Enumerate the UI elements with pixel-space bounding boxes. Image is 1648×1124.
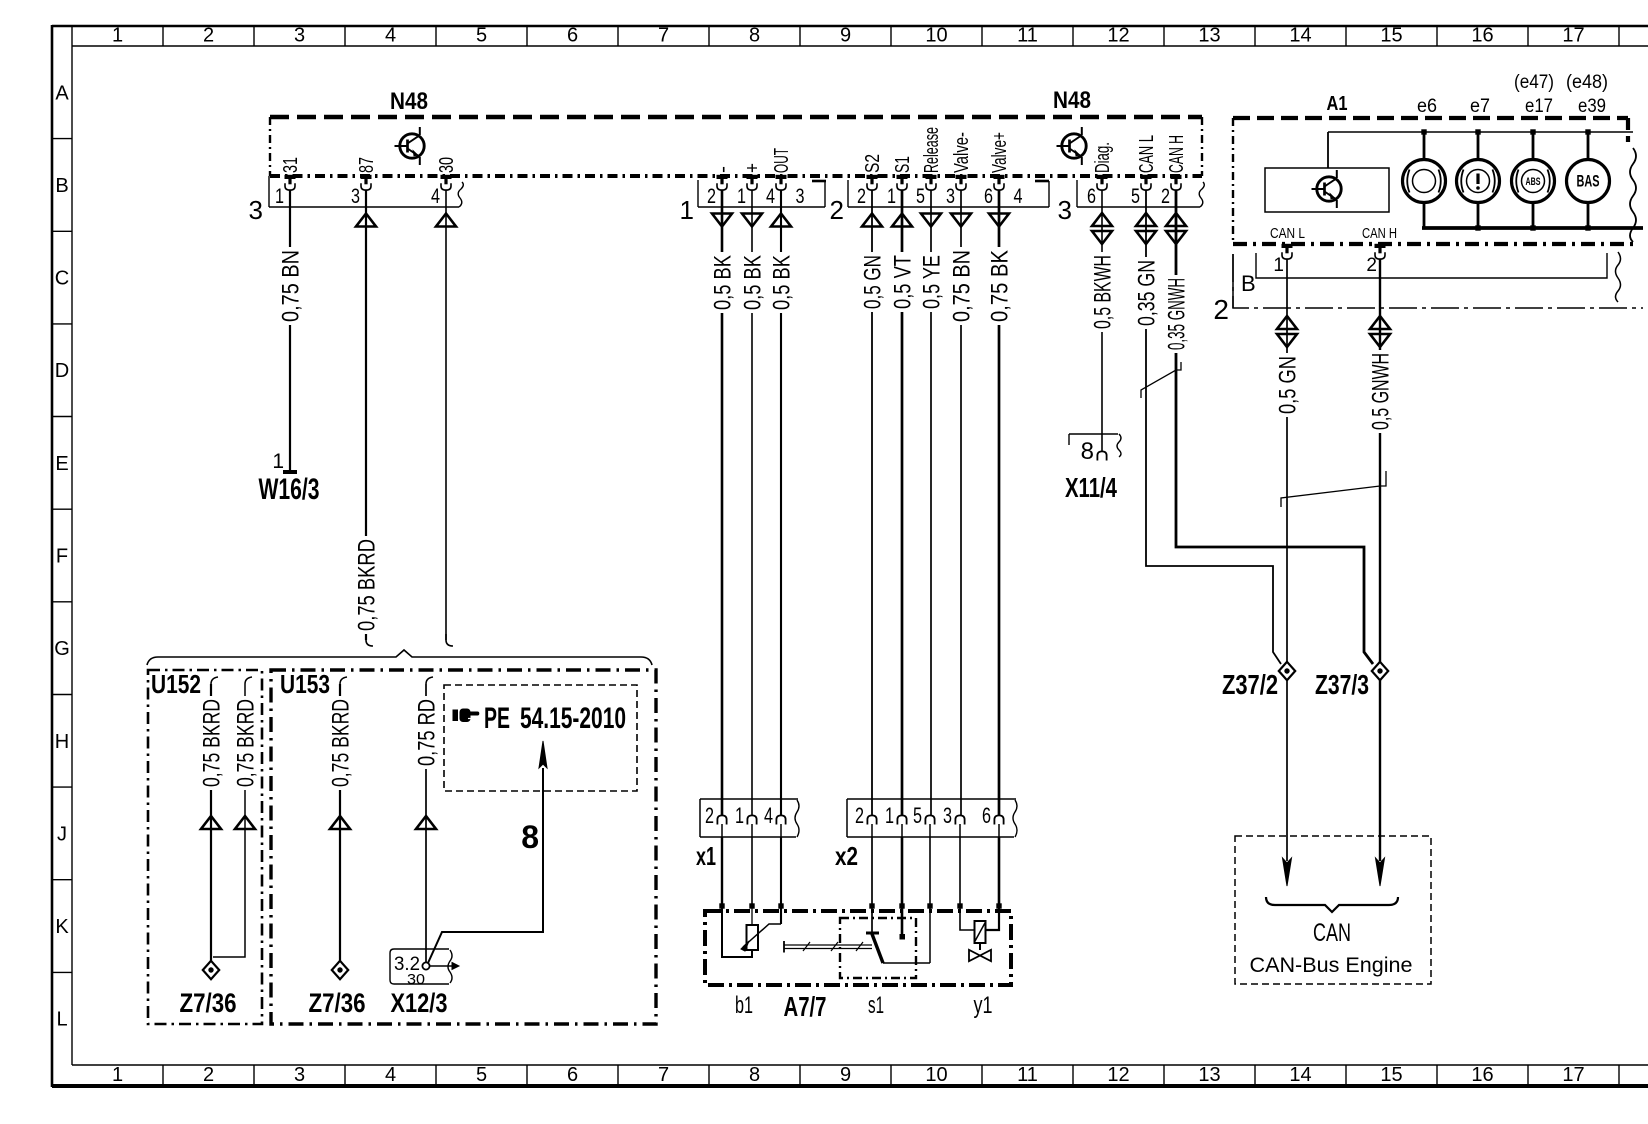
wire x2.1 to s1 — [901, 837, 904, 906]
svg-text:0,75 BKRD: 0,75 BKRD — [233, 699, 260, 787]
svg-text:ABS: ABS — [1526, 176, 1541, 188]
svg-text:2: 2 — [830, 195, 844, 225]
svg-text:0,5 BK: 0,5 BK — [710, 255, 737, 310]
connector strip bracket 3 (terminals 31 87 30) — [249, 176, 464, 225]
svg-text:S2: S2 — [862, 154, 884, 173]
node bus-e7 — [1475, 129, 1480, 134]
wire 8 from X12/3 to PE reference — [428, 741, 547, 963]
x2 pin 6 — [982, 803, 1004, 837]
label e7 — [1470, 96, 1490, 117]
wire 0,75 BKRD U152 right to splice Z7/36 — [213, 677, 260, 957]
connector triangle (male) on wire x1.4 — [771, 214, 791, 227]
svg-text:CAN H: CAN H — [1362, 225, 1397, 242]
svg-text:0,5 VT: 0,5 VT — [890, 255, 917, 309]
wire x2.3 to y1 — [959, 837, 961, 906]
svg-text:OUT: OUT — [771, 148, 793, 173]
svg-text:s1: s1 — [868, 992, 884, 1019]
svg-text:9: 9 — [840, 25, 851, 47]
svg-text:x2: x2 — [835, 841, 858, 871]
instrument cluster A1 dashed box — [1233, 118, 1636, 244]
wire 0,5 BK pin1 to x1.1 — [740, 190, 767, 816]
svg-text:4: 4 — [766, 185, 775, 208]
wire transceiver to lamp bus — [1328, 132, 1633, 168]
wire 0,5 BKWH pin6 to X11/4 — [1090, 190, 1117, 452]
wire x2.6 to y1 — [998, 837, 1001, 906]
svg-text:12: 12 — [1107, 1064, 1129, 1086]
x2 pin 2 — [855, 803, 877, 837]
svg-text:0,5 GN: 0,5 GN — [1275, 356, 1302, 414]
label A7/7 — [784, 991, 827, 1022]
svg-text:F: F — [56, 546, 68, 568]
svg-text:B: B — [55, 175, 68, 197]
CAN underbrace and labels — [1250, 897, 1413, 977]
twisted pair marker N48 CAN wires — [1141, 362, 1181, 398]
pin 4 (OUT) of N48 connector 1 — [766, 146, 793, 208]
CAN transceiver box in A1 — [1265, 168, 1389, 212]
svg-text:Z7/36: Z7/36 — [180, 988, 237, 1018]
connector triangle on wire x2.3 — [951, 214, 971, 227]
double connector triangles on CAN L wire — [1136, 213, 1156, 244]
pin 3 terminal 87 of N48 — [351, 155, 378, 208]
harness connector U152 dash-dot box — [148, 669, 262, 1024]
label N48 (left) — [390, 88, 428, 115]
svg-text:5: 5 — [476, 1064, 487, 1086]
indicator lamp e6 (brake wear) — [1403, 132, 1446, 228]
wire x1.2 to b1 — [721, 837, 723, 906]
svg-text:3: 3 — [943, 803, 952, 828]
twisted pair marker A1 CAN wires — [1281, 471, 1386, 507]
svg-text:e7: e7 — [1470, 96, 1490, 117]
transistor symbol in N48 (right) — [1057, 127, 1087, 165]
svg-text:15: 15 — [1380, 25, 1402, 47]
ground W16/3 — [259, 450, 320, 506]
svg-text:5: 5 — [476, 25, 487, 47]
label N48 (right) — [1053, 87, 1091, 114]
wire 0,75 BN pin3 to x2.3 — [949, 190, 976, 816]
splice Z37/3 — [1315, 662, 1388, 700]
connector triangle on wire pin4 — [436, 214, 456, 227]
svg-text:CAN L: CAN L — [1136, 135, 1158, 173]
svg-text:2: 2 — [705, 803, 714, 828]
svg-text:1: 1 — [112, 1064, 123, 1086]
connector x2 strip — [835, 799, 1017, 871]
wire x1.4 to b1 — [780, 837, 782, 906]
double connector triangles on CAN H wire — [1166, 213, 1186, 244]
svg-text:5: 5 — [1131, 185, 1140, 208]
svg-text:L: L — [56, 1009, 67, 1031]
svg-text:1: 1 — [737, 185, 746, 208]
svg-text:9: 9 — [840, 1064, 851, 1086]
wire 0,5 BK pin2 to x1.2 — [710, 190, 737, 816]
node x1.2 on A7/7 — [719, 903, 724, 908]
svg-text:X11/4: X11/4 — [1065, 472, 1117, 503]
svg-text:Z37/3: Z37/3 — [1315, 669, 1369, 700]
svg-text:y1: y1 — [974, 992, 993, 1019]
svg-text:30: 30 — [407, 971, 425, 988]
CAN-Bus Engine dashed box — [1235, 836, 1431, 984]
wire 0,5 YE pin5 to x2.5 — [919, 190, 946, 816]
svg-text:-: - — [712, 166, 734, 173]
svg-text:3: 3 — [294, 25, 305, 47]
svg-text:10: 10 — [925, 25, 947, 47]
label e39 — [1578, 96, 1606, 117]
label A1 — [1327, 93, 1348, 115]
svg-text:5: 5 — [913, 803, 922, 828]
connector triangle U153 wire 2 — [416, 816, 436, 829]
svg-text:1: 1 — [275, 185, 284, 208]
svg-text:1: 1 — [112, 25, 123, 47]
svg-text:8: 8 — [749, 25, 760, 47]
arrow CAN H into CAN bus — [1376, 858, 1385, 886]
splice Z37/2 — [1222, 662, 1295, 700]
svg-text:D: D — [55, 360, 69, 382]
node x2.5 on A7/7 — [927, 903, 932, 908]
svg-text:Valve+: Valve+ — [989, 132, 1011, 173]
svg-text:e6: e6 — [1417, 96, 1437, 117]
double connector triangles on Diag wire — [1092, 213, 1112, 244]
svg-text:X12/3: X12/3 — [391, 988, 448, 1018]
svg-text:0,5 GNWH: 0,5 GNWH — [1368, 353, 1395, 430]
hydraulic unit A7/7 dash-dot box — [705, 911, 1011, 985]
svg-text:2: 2 — [203, 25, 214, 47]
svg-text:17: 17 — [1562, 1064, 1584, 1086]
node x1.4 on A7/7 — [778, 903, 783, 908]
node x2.3 on A7/7 — [957, 903, 962, 908]
svg-text:U152: U152 — [151, 669, 201, 699]
svg-text:6: 6 — [1087, 185, 1096, 208]
svg-text:2: 2 — [1161, 185, 1170, 208]
x1 pin 2 — [705, 803, 727, 837]
svg-text:0,5 BKWH: 0,5 BKWH — [1090, 255, 1117, 329]
svg-text:1: 1 — [1273, 255, 1284, 276]
svg-text:6: 6 — [984, 185, 993, 208]
svg-text:15: 15 — [1380, 1064, 1402, 1086]
indicator lamp e7 (brake warning) — [1457, 132, 1500, 228]
svg-text:1: 1 — [887, 185, 896, 208]
wire 0,5 GN A1 pin1 to splice Z37/2 and CAN-Bus — [1275, 259, 1302, 861]
wire x2.5 to s1 — [929, 837, 931, 906]
lamp return bus (thick) — [1422, 225, 1643, 230]
pin 1 (S1) of N48 connector 2 — [887, 154, 914, 208]
connector triangle U153 wire 1 — [330, 816, 350, 829]
splice Z7/36 in U152 — [180, 961, 237, 1018]
wire 0,75 RD U153 to terminal 30 X12/3 — [414, 677, 441, 962]
wire 0,75 BKRD U152 left to splice Z7/36 — [199, 677, 226, 961]
svg-text:0,75 BKRD: 0,75 BKRD — [328, 699, 355, 787]
svg-text:Release: Release — [921, 127, 943, 173]
connector triangle on wire x2.1 — [892, 214, 912, 227]
wire 0,35 GN CAN L from N48 to splice Z37/2 — [1134, 190, 1281, 664]
svg-text:CAN H: CAN H — [1166, 135, 1188, 173]
svg-text:U153: U153 — [280, 669, 330, 699]
svg-text:3: 3 — [294, 1064, 305, 1086]
svg-text:0,5 GN: 0,5 GN — [860, 255, 887, 309]
svg-text:16: 16 — [1471, 1064, 1493, 1086]
x2 pin 3 — [943, 803, 965, 837]
control unit N48 dashed box — [270, 117, 1202, 176]
splice Z7/36 in U153 — [309, 961, 366, 1018]
sensor b1 (potentiometer) — [722, 906, 781, 1019]
label (e48) — [1566, 72, 1608, 93]
pin 1 CAN L of A1 — [1273, 244, 1292, 276]
svg-text:0,5 BK: 0,5 BK — [769, 255, 796, 310]
svg-text:B: B — [1241, 271, 1256, 296]
svg-text:N48: N48 — [390, 88, 428, 115]
x1 pin 1 — [735, 803, 757, 837]
svg-text:4: 4 — [1014, 185, 1023, 208]
svg-text:6: 6 — [567, 1064, 578, 1086]
pin 6 (Valve+) of N48 connector 2 — [984, 130, 1011, 208]
svg-text:3: 3 — [946, 185, 955, 208]
connector triangle U152 wire 2 — [235, 816, 255, 829]
connector triangle on wire x2.5 — [921, 214, 941, 227]
svg-text:0,5 YE: 0,5 YE — [919, 255, 946, 309]
svg-text:x1: x1 — [696, 841, 716, 871]
pin 6 (Diag.) of N48 connector 3 — [1087, 140, 1114, 208]
svg-text:Valve-: Valve- — [951, 132, 973, 173]
connector triangle (female) on wire x1.1 — [742, 214, 762, 227]
svg-text:2: 2 — [203, 1064, 214, 1086]
arrow CAN L into CAN bus — [1283, 858, 1292, 886]
pin 1 (+) of N48 connector 1 — [737, 161, 764, 208]
svg-text:S1: S1 — [892, 156, 914, 173]
pin 1 terminal 31 of N48 — [275, 155, 302, 208]
svg-text:0,75 BK: 0,75 BK — [987, 250, 1014, 322]
svg-text:0,75 BKRD: 0,75 BKRD — [199, 699, 226, 787]
node x2.6 on A7/7 — [996, 903, 1001, 908]
connector X11/4 pin 8 — [1065, 434, 1121, 503]
svg-text:0,75 BKRD: 0,75 BKRD — [354, 539, 381, 631]
wire 0,5 GN pin2 to x2.2 — [860, 190, 887, 816]
solenoid valve y1 — [960, 906, 999, 1019]
svg-text:1: 1 — [735, 803, 744, 828]
connector bracket B — [1241, 252, 1621, 302]
pin 2 (S2) of N48 connector 2 — [857, 152, 884, 208]
svg-text:N48: N48 — [1053, 87, 1091, 114]
svg-text:C: C — [55, 268, 69, 290]
svg-text:14: 14 — [1289, 25, 1311, 47]
node x2.1 on A7/7 — [899, 903, 904, 908]
svg-text:8: 8 — [521, 819, 539, 855]
svg-text:7: 7 — [658, 25, 669, 47]
connector strip bracket 1 (pins 2 1 4 3) — [680, 180, 826, 225]
svg-text:4: 4 — [764, 803, 773, 828]
svg-text:10: 10 — [925, 1064, 947, 1086]
node x1.1 on A7/7 — [749, 903, 754, 908]
svg-text:6: 6 — [567, 25, 578, 47]
node bus-e6 — [1421, 129, 1426, 134]
svg-text:11: 11 — [1017, 25, 1038, 47]
svg-text:CAN-Bus Engine: CAN-Bus Engine — [1250, 954, 1413, 977]
svg-text:E: E — [55, 453, 68, 475]
svg-text:3: 3 — [351, 185, 360, 208]
svg-text:(e47): (e47) — [1514, 72, 1554, 93]
svg-text:14: 14 — [1289, 1064, 1311, 1086]
svg-text:G: G — [54, 638, 70, 660]
svg-text:13: 13 — [1198, 1064, 1220, 1086]
wire x1.1 to b1 — [751, 837, 753, 906]
pin 3 (Valve-) of N48 connector 2 — [946, 130, 973, 208]
svg-text:8: 8 — [1081, 438, 1094, 465]
x1 pin 4 — [764, 803, 786, 837]
svg-text:A: A — [55, 82, 69, 104]
wire x2.2 to s1 — [871, 837, 873, 906]
wire from pin4 terminal 30 down to U-brace — [446, 190, 453, 646]
indicator lamp e17 (ABS) — [1512, 132, 1555, 228]
svg-text:J: J — [57, 823, 67, 845]
connector triangle on wire pin3 — [356, 214, 376, 227]
svg-text:1: 1 — [885, 803, 894, 828]
svg-text:12: 12 — [1107, 25, 1129, 47]
pin 2 CAN H of A1 — [1366, 244, 1385, 276]
svg-text:54.15-2010: 54.15-2010 — [520, 702, 626, 735]
svg-text:K: K — [55, 916, 69, 938]
svg-text:0,75 BN: 0,75 BN — [949, 250, 976, 322]
pressure switch s1 — [784, 906, 930, 1019]
transistor symbol in N48 (left) — [395, 127, 425, 165]
wire 0,5 VT pin1 to x2.1 — [890, 190, 917, 816]
label e6 — [1417, 96, 1437, 117]
svg-text:3: 3 — [1058, 195, 1072, 225]
wire 0,75 BN from pin1 to ground W16/3 — [278, 190, 305, 470]
svg-text:b1: b1 — [735, 992, 753, 1019]
svg-text:11: 11 — [1017, 1064, 1038, 1086]
wire 0,75 BKRD U153 to splice Z7/36 — [328, 677, 355, 961]
pin 5 (CAN L) of N48 connector 3 — [1131, 133, 1158, 208]
PE reference box 54.15-2010 — [444, 685, 637, 791]
pin 2 (CAN H) of N48 connector 3 — [1161, 133, 1188, 208]
svg-text:2: 2 — [1366, 255, 1377, 276]
connector triangle on wire x2.6 — [989, 214, 1009, 227]
svg-text:4: 4 — [385, 25, 396, 47]
svg-text:CAN: CAN — [1313, 919, 1351, 947]
svg-text:e39: e39 — [1578, 96, 1606, 117]
svg-text:A1: A1 — [1327, 93, 1348, 115]
svg-text:4: 4 — [385, 1064, 396, 1086]
svg-text:Diag.: Diag. — [1092, 142, 1114, 173]
svg-text:2: 2 — [707, 185, 716, 208]
svg-text:2: 2 — [855, 803, 864, 828]
svg-text:1: 1 — [272, 450, 284, 473]
svg-text:4: 4 — [431, 185, 440, 208]
svg-text:2: 2 — [857, 185, 866, 208]
label e17 — [1525, 96, 1553, 117]
svg-text:CAN L: CAN L — [1270, 225, 1305, 242]
svg-text:PE: PE — [484, 702, 510, 735]
node x2.2 on A7/7 — [869, 903, 874, 908]
svg-text:0,35 GN: 0,35 GN — [1134, 260, 1161, 326]
x2 pin 1 — [885, 803, 907, 837]
connector strip bracket 2 (pins 2 1 5 3 6 4) — [830, 180, 1049, 225]
terminal block X12/3 terminal 30 — [390, 949, 459, 1018]
wire 0,75 BKRD from pin3 down to U-brace — [354, 190, 381, 646]
svg-text:30: 30 — [436, 157, 458, 173]
svg-text:16: 16 — [1471, 25, 1493, 47]
label (e47) — [1514, 72, 1554, 93]
svg-text:Z7/36: Z7/36 — [309, 988, 366, 1018]
svg-text:6: 6 — [982, 803, 991, 828]
connector x1 strip — [696, 799, 799, 871]
connector strip bracket 3 (pins 6 5 2) — [1058, 180, 1205, 225]
pin 2 (-) of N48 connector 1 — [707, 164, 734, 208]
svg-text:5: 5 — [916, 185, 925, 208]
wire 0,5 GNWH A1 pin2 to splice Z37/3 and CAN-Bus — [1368, 259, 1395, 861]
svg-text:87: 87 — [356, 157, 378, 173]
svg-text:3: 3 — [249, 195, 263, 225]
svg-text:Z37/2: Z37/2 — [1222, 669, 1278, 700]
wire 0,5 BK pin4 to x1.4 — [769, 190, 796, 816]
svg-text:0,35 GNWH: 0,35 GNWH — [1164, 278, 1191, 350]
svg-text:+: + — [742, 163, 764, 173]
svg-text:e17: e17 — [1525, 96, 1553, 117]
harness connector U153 dashed box — [271, 669, 656, 1024]
svg-text:13: 13 — [1198, 25, 1220, 47]
svg-text:2: 2 — [1213, 294, 1229, 325]
svg-text:0,75 BN: 0,75 BN — [278, 250, 305, 322]
pin 5 (Release) of N48 connector 2 — [916, 125, 943, 208]
node bus-e39 — [1585, 129, 1590, 134]
connector triangle (female) on wire x1.2 — [712, 214, 732, 227]
pin 4 terminal 30 of N48 — [431, 155, 458, 208]
wire 0,35 GNWH CAN H from N48 to splice Z37/3 — [1164, 190, 1373, 664]
brace collecting wires to U152/U153 — [147, 650, 652, 665]
svg-text:1: 1 — [680, 195, 694, 225]
svg-text:17: 17 — [1562, 25, 1584, 47]
svg-text:0,5 BK: 0,5 BK — [740, 255, 767, 310]
double connector triangles on A1 CAN L wire — [1277, 316, 1297, 347]
svg-text:31: 31 — [280, 157, 302, 173]
svg-text:A7/7: A7/7 — [784, 991, 827, 1022]
connector triangle U152 wire 1 — [201, 816, 221, 829]
svg-text:3: 3 — [796, 185, 805, 208]
node bus-e17 — [1530, 129, 1535, 134]
svg-text:(e48): (e48) — [1566, 72, 1608, 93]
connector triangle on wire x2.2 — [862, 214, 882, 227]
svg-text:0,75 RD: 0,75 RD — [414, 699, 441, 766]
x2 pin 5 — [913, 803, 935, 837]
svg-text:W16/3: W16/3 — [259, 473, 320, 506]
wire 0,75 BK pin6 to x2.6 — [987, 190, 1014, 816]
shield bracket 2 — [1213, 254, 1643, 325]
svg-text:7: 7 — [658, 1064, 669, 1086]
label CAN H in A1 — [1362, 225, 1397, 242]
svg-text:8: 8 — [749, 1064, 760, 1086]
svg-text:BAS: BAS — [1577, 172, 1600, 191]
svg-text:H: H — [55, 731, 69, 753]
indicator lamp e39 (BAS) — [1567, 132, 1610, 228]
double connector triangles on A1 CAN H wire — [1370, 316, 1390, 347]
label CAN L in A1 — [1270, 225, 1305, 242]
